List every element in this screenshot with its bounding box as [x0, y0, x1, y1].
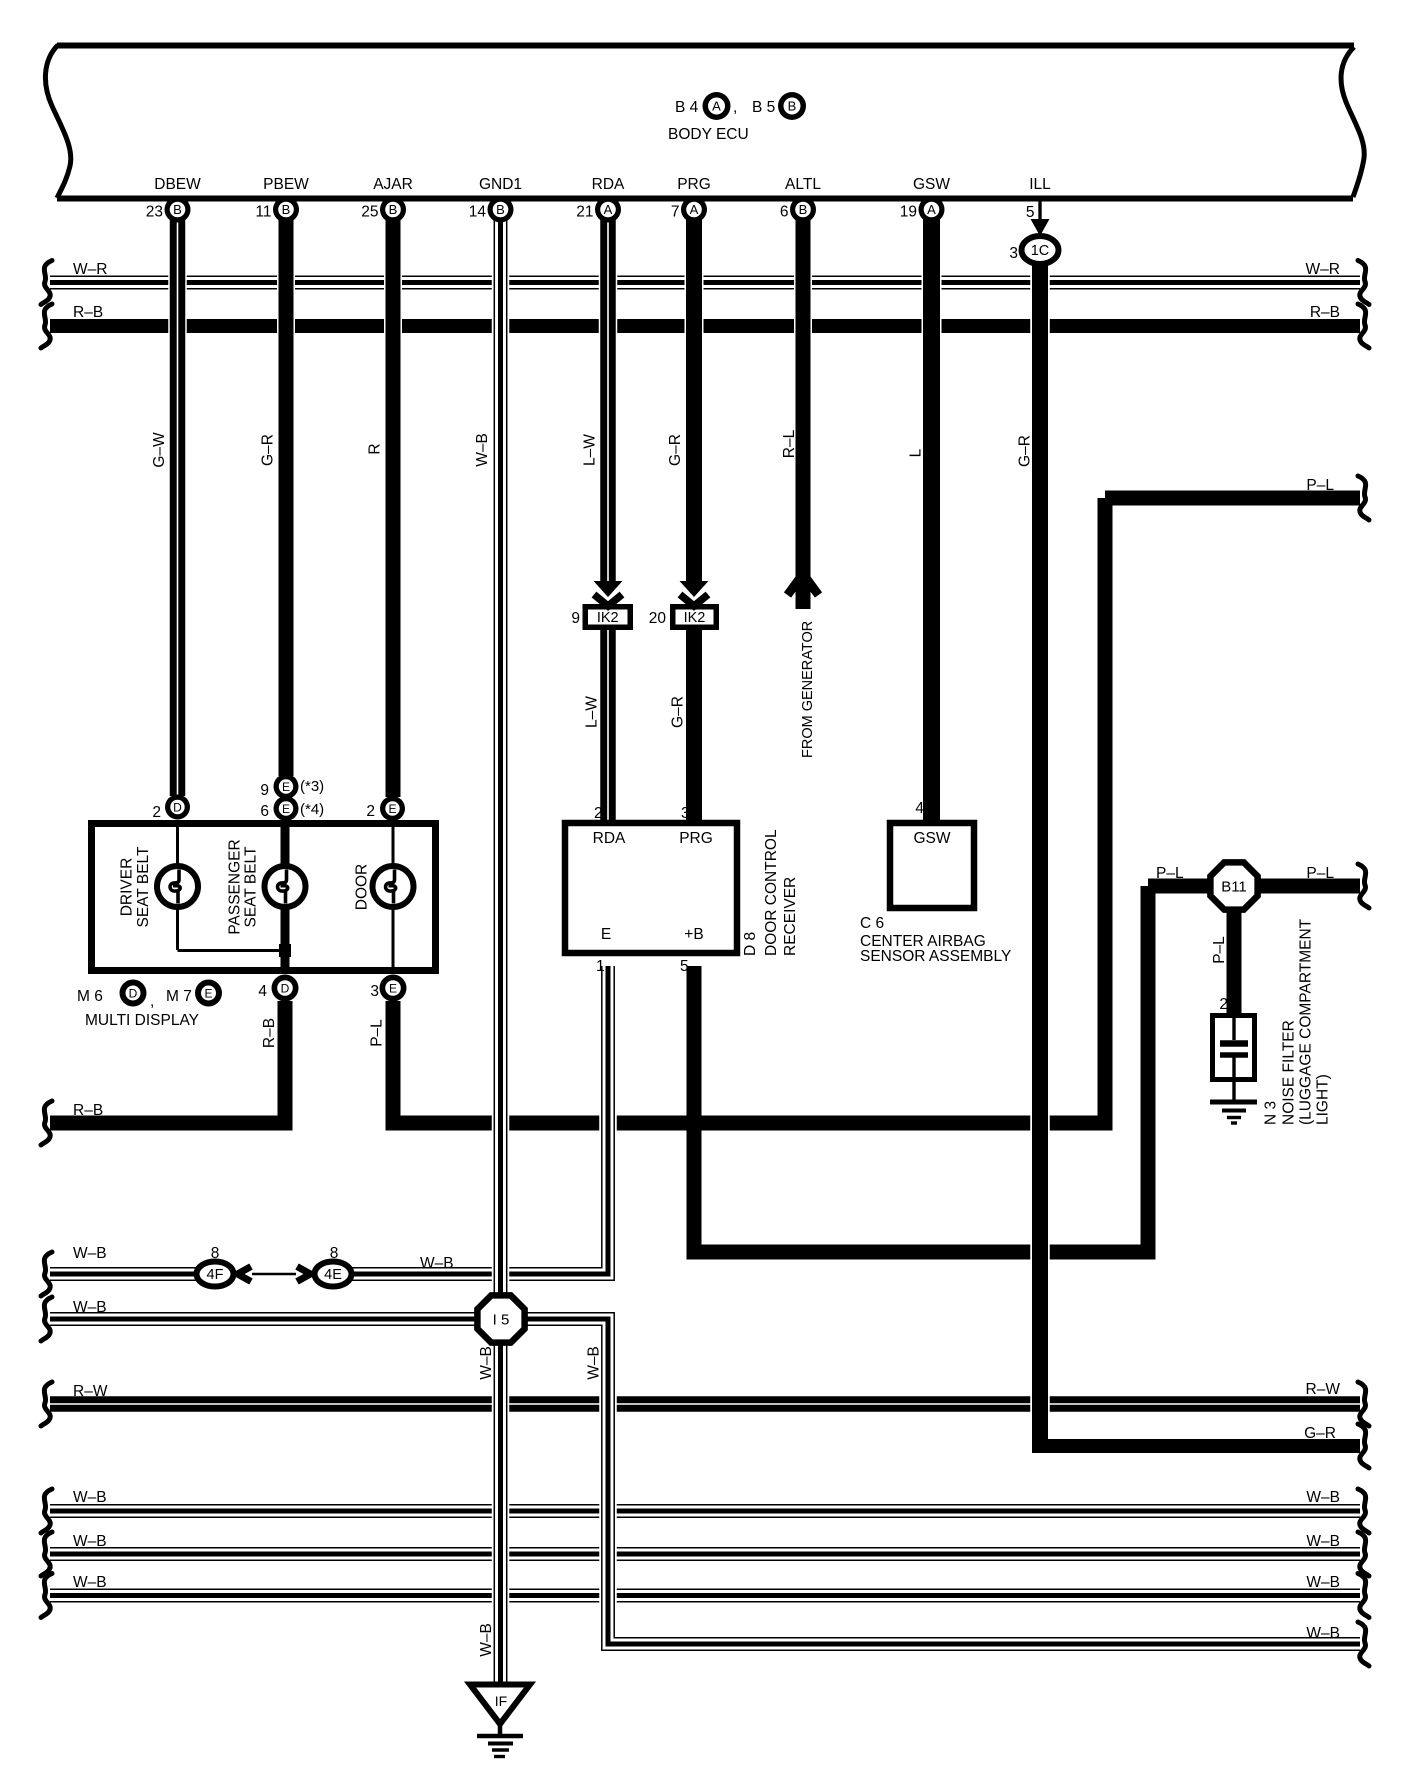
svg-text:5: 5: [1026, 204, 1035, 221]
arrow toward 4E: [297, 1267, 311, 1282]
svg-text:8: 8: [330, 1245, 339, 1262]
wire W-B from I5 right to bottom lead: [524, 1319, 1360, 1644]
svg-text:W–B: W–B: [478, 1346, 495, 1380]
lamp DOOR: [373, 866, 414, 907]
ECU pin circle B at x=286: [273, 197, 299, 223]
svg-text:G–R: G–R: [1304, 1425, 1336, 1442]
crossing masks R-L wire: [794, 275, 812, 291]
svg-text:G–R: G–R: [1017, 435, 1034, 467]
bus W-B to 4F (left): [50, 1267, 198, 1281]
N3 ground bar 3: [1227, 1116, 1241, 1119]
svg-text:B 4: B 4: [675, 99, 699, 116]
connector B5 circle B: [778, 92, 806, 120]
svg-text:G–W: G–W: [151, 432, 168, 468]
N3 ground bar 4: [1231, 1121, 1237, 1124]
svg-text:D 8: D 8: [742, 932, 759, 956]
left bus continuation squiggle y=1123: [41, 1101, 52, 1145]
svg-text:A: A: [604, 202, 613, 217]
arrow into IK2 right: [680, 581, 709, 597]
crossing mask G-R ILL wire over bus: [1030, 1243, 1050, 1261]
svg-text:W–B: W–B: [1306, 1574, 1340, 1591]
svg-text:3: 3: [370, 983, 379, 1000]
svg-text:9: 9: [571, 610, 580, 627]
crossing masks R wire: [384, 275, 402, 291]
svg-text:,: ,: [150, 993, 154, 1010]
crossing mask GND1 wire over bus: [492, 275, 510, 291]
N3 ground bar 2: [1222, 1109, 1246, 1113]
svg-text:W–B: W–B: [73, 1533, 107, 1550]
wire driver seat belt lamp: [176, 827, 179, 950]
connector circle 2 E (door): [380, 796, 405, 821]
crossing mask G-R ILL wire over bus: [1030, 275, 1050, 291]
N3 capacitor lead bottom: [1232, 1055, 1235, 1100]
bus W-B to I5 (left): [50, 1312, 478, 1326]
svg-text:G–R: G–R: [260, 434, 277, 466]
svg-text:7: 7: [671, 204, 680, 221]
wire P-L from door + bus to P-L lead (net): [386, 498, 1361, 1131]
crossing masks G-R PRG wire: [685, 275, 704, 291]
junction I5 octagon: [477, 1295, 524, 1342]
svg-text:G–R: G–R: [670, 696, 687, 728]
svg-text:W–B: W–B: [478, 1623, 495, 1657]
svg-text:11: 11: [255, 204, 271, 221]
svg-text:N 3: N 3: [1263, 1101, 1280, 1125]
svg-text:3: 3: [1009, 245, 1018, 262]
wire link driver to passenger: [178, 949, 286, 952]
right bus continuation squiggle y=1595.5: [1358, 1574, 1369, 1618]
svg-text:R–L: R–L: [781, 429, 798, 458]
right bus continuation squiggle y=1644: [1358, 1622, 1369, 1666]
svg-text:20: 20: [649, 610, 667, 627]
svg-text:RDA: RDA: [593, 830, 626, 847]
svg-text:PASSENGER: PASSENGER: [227, 839, 244, 934]
svg-text:B: B: [496, 202, 505, 217]
BODY ECU box bottom edge: [57, 196, 1353, 202]
arrow from generator (ALTL): [788, 574, 819, 595]
svg-text:IK2: IK2: [684, 610, 706, 626]
svg-text:4E: 4E: [324, 1267, 342, 1283]
svg-text:M 6: M 6: [77, 988, 103, 1005]
connector 1C oval: [1022, 236, 1059, 264]
crossing mask W-B wire over bus: [599, 1394, 617, 1414]
svg-text:GND1: GND1: [479, 176, 522, 193]
svg-text:R–B: R–B: [73, 1102, 103, 1119]
svg-text:(*4): (*4): [300, 801, 324, 818]
connector IK2 right box: [673, 607, 717, 628]
crossing mask G-R ILL wire over bus: [1030, 1394, 1050, 1414]
svg-text:A: A: [927, 202, 936, 217]
svg-text:23: 23: [146, 204, 163, 221]
svg-text:D: D: [129, 986, 138, 1000]
svg-text:W–B: W–B: [420, 1255, 454, 1272]
connector 4E oval: [315, 1262, 352, 1287]
ECU pin circle B at x=177.5: [165, 197, 191, 223]
ECU pin circle A at x=931.5: [919, 197, 945, 223]
right bus continuation squiggle y=1554: [1358, 1532, 1369, 1576]
crossing mask GND1 wire over bus: [492, 1503, 510, 1520]
svg-text:25: 25: [361, 204, 378, 221]
svg-text:DOOR: DOOR: [354, 864, 371, 911]
svg-text:3: 3: [681, 805, 690, 822]
BODY ECU box right wavy edge: [1341, 47, 1364, 197]
svg-text:1: 1: [596, 958, 605, 975]
svg-text:C 6: C 6: [860, 915, 884, 932]
svg-text:4: 4: [258, 983, 267, 1000]
crossing mask GND1 wire over bus: [492, 1115, 510, 1132]
crossing mask GND1 wire over bus: [492, 1546, 510, 1563]
connector B4 circle A: [703, 92, 731, 120]
svg-text:E: E: [204, 986, 212, 1000]
svg-text:W–B: W–B: [1306, 1533, 1340, 1550]
ground IF triangle: [470, 1685, 530, 1725]
wire P-L B11 right lead: [1256, 879, 1360, 894]
svg-text:RDA: RDA: [592, 176, 625, 193]
svg-text:DRIVER: DRIVER: [119, 858, 136, 917]
connector circle 2 D (driver): [165, 795, 190, 820]
connector circle M7 E: [195, 980, 222, 1007]
svg-text:MULTI DISPLAY: MULTI DISPLAY: [85, 1012, 199, 1029]
right bus continuation squiggle y=1404: [1358, 1382, 1369, 1426]
svg-text:PBEW: PBEW: [263, 176, 309, 193]
svg-text:19: 19: [900, 204, 917, 221]
svg-text:E: E: [282, 780, 290, 794]
BODY ECU box top edge: [57, 43, 1354, 49]
wire ILL pin stub: [1038, 201, 1041, 225]
right bus continuation squiggle y=1446: [1358, 1424, 1369, 1468]
ground IF bar 4: [494, 1755, 505, 1758]
junction dot: [279, 944, 291, 957]
svg-text:W–B: W–B: [73, 1245, 107, 1262]
svg-text:R–W: R–W: [1306, 1381, 1341, 1398]
svg-text:P–L: P–L: [1211, 936, 1228, 964]
svg-text:W–R: W–R: [1306, 261, 1340, 278]
svg-text:B11: B11: [1221, 879, 1247, 896]
svg-text:6: 6: [260, 803, 269, 820]
svg-text:B: B: [173, 202, 182, 217]
svg-text:W–B: W–B: [474, 433, 491, 467]
ECU pin circle A at x=694: [681, 197, 707, 223]
svg-text:BODY ECU: BODY ECU: [668, 126, 749, 143]
svg-text:W–B: W–B: [73, 1574, 107, 1591]
crossing mask W-B wire over bus: [599, 1544, 617, 1564]
N3 capacitor plate 1: [1220, 1040, 1248, 1047]
N3 ground bar 1: [1210, 1100, 1257, 1105]
wire P-L B11 to noise filter: [1227, 908, 1242, 1016]
connector circle 3 E (bottom): [380, 975, 407, 1002]
svg-text:,: ,: [733, 99, 737, 116]
svg-text:LIGHT): LIGHT): [1315, 1074, 1332, 1125]
wire P-L from D8 +B to B11 (net): [687, 886, 1213, 1260]
svg-text:RECEIVER: RECEIVER: [782, 877, 799, 956]
svg-text:4: 4: [915, 800, 924, 817]
svg-text:AJAR: AJAR: [373, 176, 413, 193]
svg-text:L–W: L–W: [582, 434, 599, 466]
svg-text:W–B: W–B: [1306, 1625, 1340, 1642]
wire G-R (ILL) down and right lead: [1032, 262, 1048, 1453]
wire L-W (RDA) upper: [600, 205, 616, 583]
svg-text:FROM GENERATOR: FROM GENERATOR: [800, 621, 816, 758]
svg-text:E: E: [282, 802, 290, 816]
svg-text:9: 9: [260, 782, 269, 799]
right bus continuation squiggle y=498: [1358, 476, 1369, 520]
svg-text:W–B: W–B: [1306, 1489, 1340, 1506]
svg-text:R–B: R–B: [261, 1018, 278, 1048]
svg-text:GSW: GSW: [913, 830, 950, 847]
wire G-W (DBEW): [170, 205, 186, 796]
multi display box: [92, 824, 436, 971]
svg-text:E: E: [388, 802, 396, 816]
lamp DRIVER SEAT BELT: [157, 866, 198, 907]
svg-text:A: A: [712, 99, 721, 114]
svg-text:A: A: [690, 202, 699, 217]
svg-text:P–L: P–L: [1306, 865, 1334, 882]
wire L-W (RDA) lower: [600, 628, 616, 823]
svg-text:B 5: B 5: [752, 99, 775, 116]
svg-text:2: 2: [594, 805, 603, 822]
lamp PASSENGER SEAT BELT: [265, 866, 306, 907]
wire L (GSW): [923, 205, 940, 823]
left bus continuation squiggle y=1319: [41, 1297, 52, 1341]
connector IK2 left box: [585, 607, 630, 628]
wire passenger seat belt lamp: [281, 827, 290, 967]
wire R-L (ALTL): [796, 205, 811, 609]
svg-text:IF: IF: [495, 1693, 507, 1709]
svg-text:2: 2: [366, 803, 375, 820]
svg-text:GSW: GSW: [913, 176, 950, 193]
bus R-B (top): [50, 319, 1360, 333]
svg-text:W–R: W–R: [73, 261, 107, 278]
svg-text:E: E: [601, 926, 611, 943]
crossing masks L-W wire: [599, 275, 618, 291]
ECU pin circle B at x=803: [790, 197, 816, 223]
ground IF bar 3: [492, 1748, 509, 1751]
wire R (AJAR): [386, 205, 401, 797]
svg-text:P–L: P–L: [1306, 477, 1334, 494]
svg-text:DBEW: DBEW: [154, 176, 201, 193]
wire W-B GND1 vertical: [494, 205, 508, 1684]
svg-text:M 7: M 7: [166, 988, 192, 1005]
crossing mask G-R ILL wire over bus: [1030, 318, 1050, 335]
left bus continuation squiggle y=1595.5: [41, 1574, 52, 1618]
svg-text:B: B: [799, 202, 808, 217]
bus W-B full 3: [50, 1589, 1360, 1603]
connector circle 6 E (passenger *4): [274, 796, 299, 821]
BODY ECU box left wavy edge: [45, 45, 70, 198]
svg-text:P–L: P–L: [1156, 865, 1184, 882]
GSW center airbag sensor box: [890, 823, 974, 908]
svg-text:ILL: ILL: [1029, 176, 1051, 193]
wire G-R (PRG) upper: [686, 205, 702, 583]
svg-text:+B: +B: [684, 926, 703, 943]
bus W-R (top): [50, 276, 1360, 290]
svg-text:SEAT BELT: SEAT BELT: [243, 846, 260, 928]
svg-text:B: B: [389, 202, 398, 217]
svg-text:D: D: [173, 800, 182, 814]
svg-text:G–R: G–R: [667, 434, 684, 466]
connector circle M6 D: [120, 980, 147, 1007]
right bus continuation squiggle y=326: [1358, 304, 1369, 348]
D8 door control receiver box: [565, 823, 737, 953]
N3 capacitor plate 2: [1220, 1052, 1248, 1058]
right bus continuation squiggle y=282.5: [1358, 261, 1369, 305]
crossing mask D8-E wire over P-L bus: [599, 1115, 617, 1132]
svg-text:14: 14: [469, 204, 487, 221]
ECU pin circle A at x=608: [595, 197, 621, 223]
crossing mask W-B wire over bus: [599, 1586, 617, 1606]
svg-text:D: D: [281, 981, 290, 995]
svg-text:(LUGGAGE COMPARTMENT: (LUGGAGE COMPARTMENT: [1298, 918, 1315, 1125]
left bus continuation squiggle y=282.5: [41, 261, 52, 305]
right bus continuation squiggle y=886: [1358, 864, 1369, 908]
svg-text:SEAT BELT: SEAT BELT: [135, 846, 152, 928]
crossing mask GND1 wire over bus: [492, 1266, 510, 1283]
svg-text:6: 6: [780, 204, 789, 221]
bus R-W (bottom): [50, 1396, 1360, 1412]
svg-text:SENSOR ASSEMBLY: SENSOR ASSEMBLY: [860, 948, 1011, 965]
svg-text:W–B: W–B: [586, 1346, 603, 1380]
wire W-B from 4E to D8 pin E: [352, 966, 608, 1274]
wire G-R (PBEW): [279, 205, 294, 776]
svg-text:4F: 4F: [207, 1267, 224, 1283]
svg-text:I 5: I 5: [493, 1312, 510, 1329]
arrow into 1C: [1031, 219, 1050, 236]
svg-text:5: 5: [680, 958, 689, 975]
wire jumper 4F-4E: [252, 1273, 296, 1276]
svg-text:ALTL: ALTL: [785, 176, 821, 193]
svg-text:1C: 1C: [1031, 243, 1050, 259]
wire R-B from multi display + bus R-B (mid left): [50, 1001, 293, 1123]
svg-text:2: 2: [152, 804, 161, 821]
svg-text:W–B: W–B: [73, 1299, 107, 1316]
svg-text:R–B: R–B: [73, 304, 103, 321]
svg-text:DOOR CONTROL: DOOR CONTROL: [763, 829, 780, 956]
left bus continuation squiggle y=1404: [41, 1382, 52, 1426]
svg-text:2: 2: [1219, 996, 1228, 1013]
bus W-B full 1: [50, 1504, 1360, 1518]
svg-text:(*3): (*3): [300, 778, 324, 795]
junction B11 octagon: [1210, 862, 1257, 909]
ground IF bar 1: [477, 1734, 523, 1739]
crossing mask G-R ILL wire over bus: [1030, 1115, 1050, 1132]
arrow into IK2 left: [594, 581, 623, 597]
svg-text:E: E: [389, 981, 397, 995]
svg-text:21: 21: [576, 204, 593, 221]
crossing mask GND1 wire over bus: [492, 318, 510, 335]
ground IF stem: [498, 1724, 503, 1736]
connector circle 9 E (passenger *3): [274, 774, 299, 799]
ground IF bar 2: [488, 1742, 513, 1746]
svg-text:8: 8: [211, 1245, 220, 1262]
ECU pin circle B at x=500.5: [488, 197, 514, 223]
left bus continuation squiggle y=1511: [41, 1489, 52, 1533]
svg-text:IK2: IK2: [597, 610, 619, 626]
crossing masks G-R wire: [277, 275, 295, 291]
left bus continuation squiggle y=1554: [41, 1532, 52, 1576]
crossing masks L wire: [922, 275, 942, 291]
right bus continuation squiggle y=1511: [1358, 1489, 1369, 1533]
svg-text:B: B: [788, 99, 797, 114]
wire door lamp: [392, 827, 395, 967]
svg-text:PRG: PRG: [679, 830, 713, 847]
crossing masks G-W wire: [168, 275, 187, 291]
left bus continuation squiggle y=326: [41, 304, 52, 348]
N3 noise filter box: [1213, 1016, 1255, 1080]
svg-text:R–W: R–W: [73, 1383, 108, 1400]
crossing mask GND1 wire over bus: [492, 1394, 510, 1414]
svg-text:PRG: PRG: [677, 176, 711, 193]
crossing mask GND1 wire over bus: [492, 1587, 510, 1604]
svg-text:R–B: R–B: [1310, 304, 1340, 321]
svg-text:W–B: W–B: [73, 1489, 107, 1506]
connector circle 4 D (bottom): [272, 975, 299, 1002]
svg-text:R: R: [367, 443, 384, 454]
svg-text:L: L: [908, 448, 925, 457]
svg-text:L–W: L–W: [584, 696, 601, 728]
svg-text:P–L: P–L: [369, 1019, 386, 1047]
N3 capacitor lead top: [1232, 1018, 1235, 1040]
bus W-B full 2: [50, 1547, 1360, 1561]
wire G-R (PRG) lower: [686, 628, 702, 823]
left bus continuation squiggle y=1274: [41, 1252, 52, 1296]
ECU pin circle B at x=393: [380, 197, 406, 223]
arrow toward 4F: [238, 1267, 252, 1282]
crossing mask W-B wire over bus: [599, 1501, 617, 1521]
connector 4F oval: [197, 1262, 234, 1287]
svg-text:B: B: [282, 202, 291, 217]
svg-text:NOISE FILTER: NOISE FILTER: [1281, 1020, 1298, 1125]
